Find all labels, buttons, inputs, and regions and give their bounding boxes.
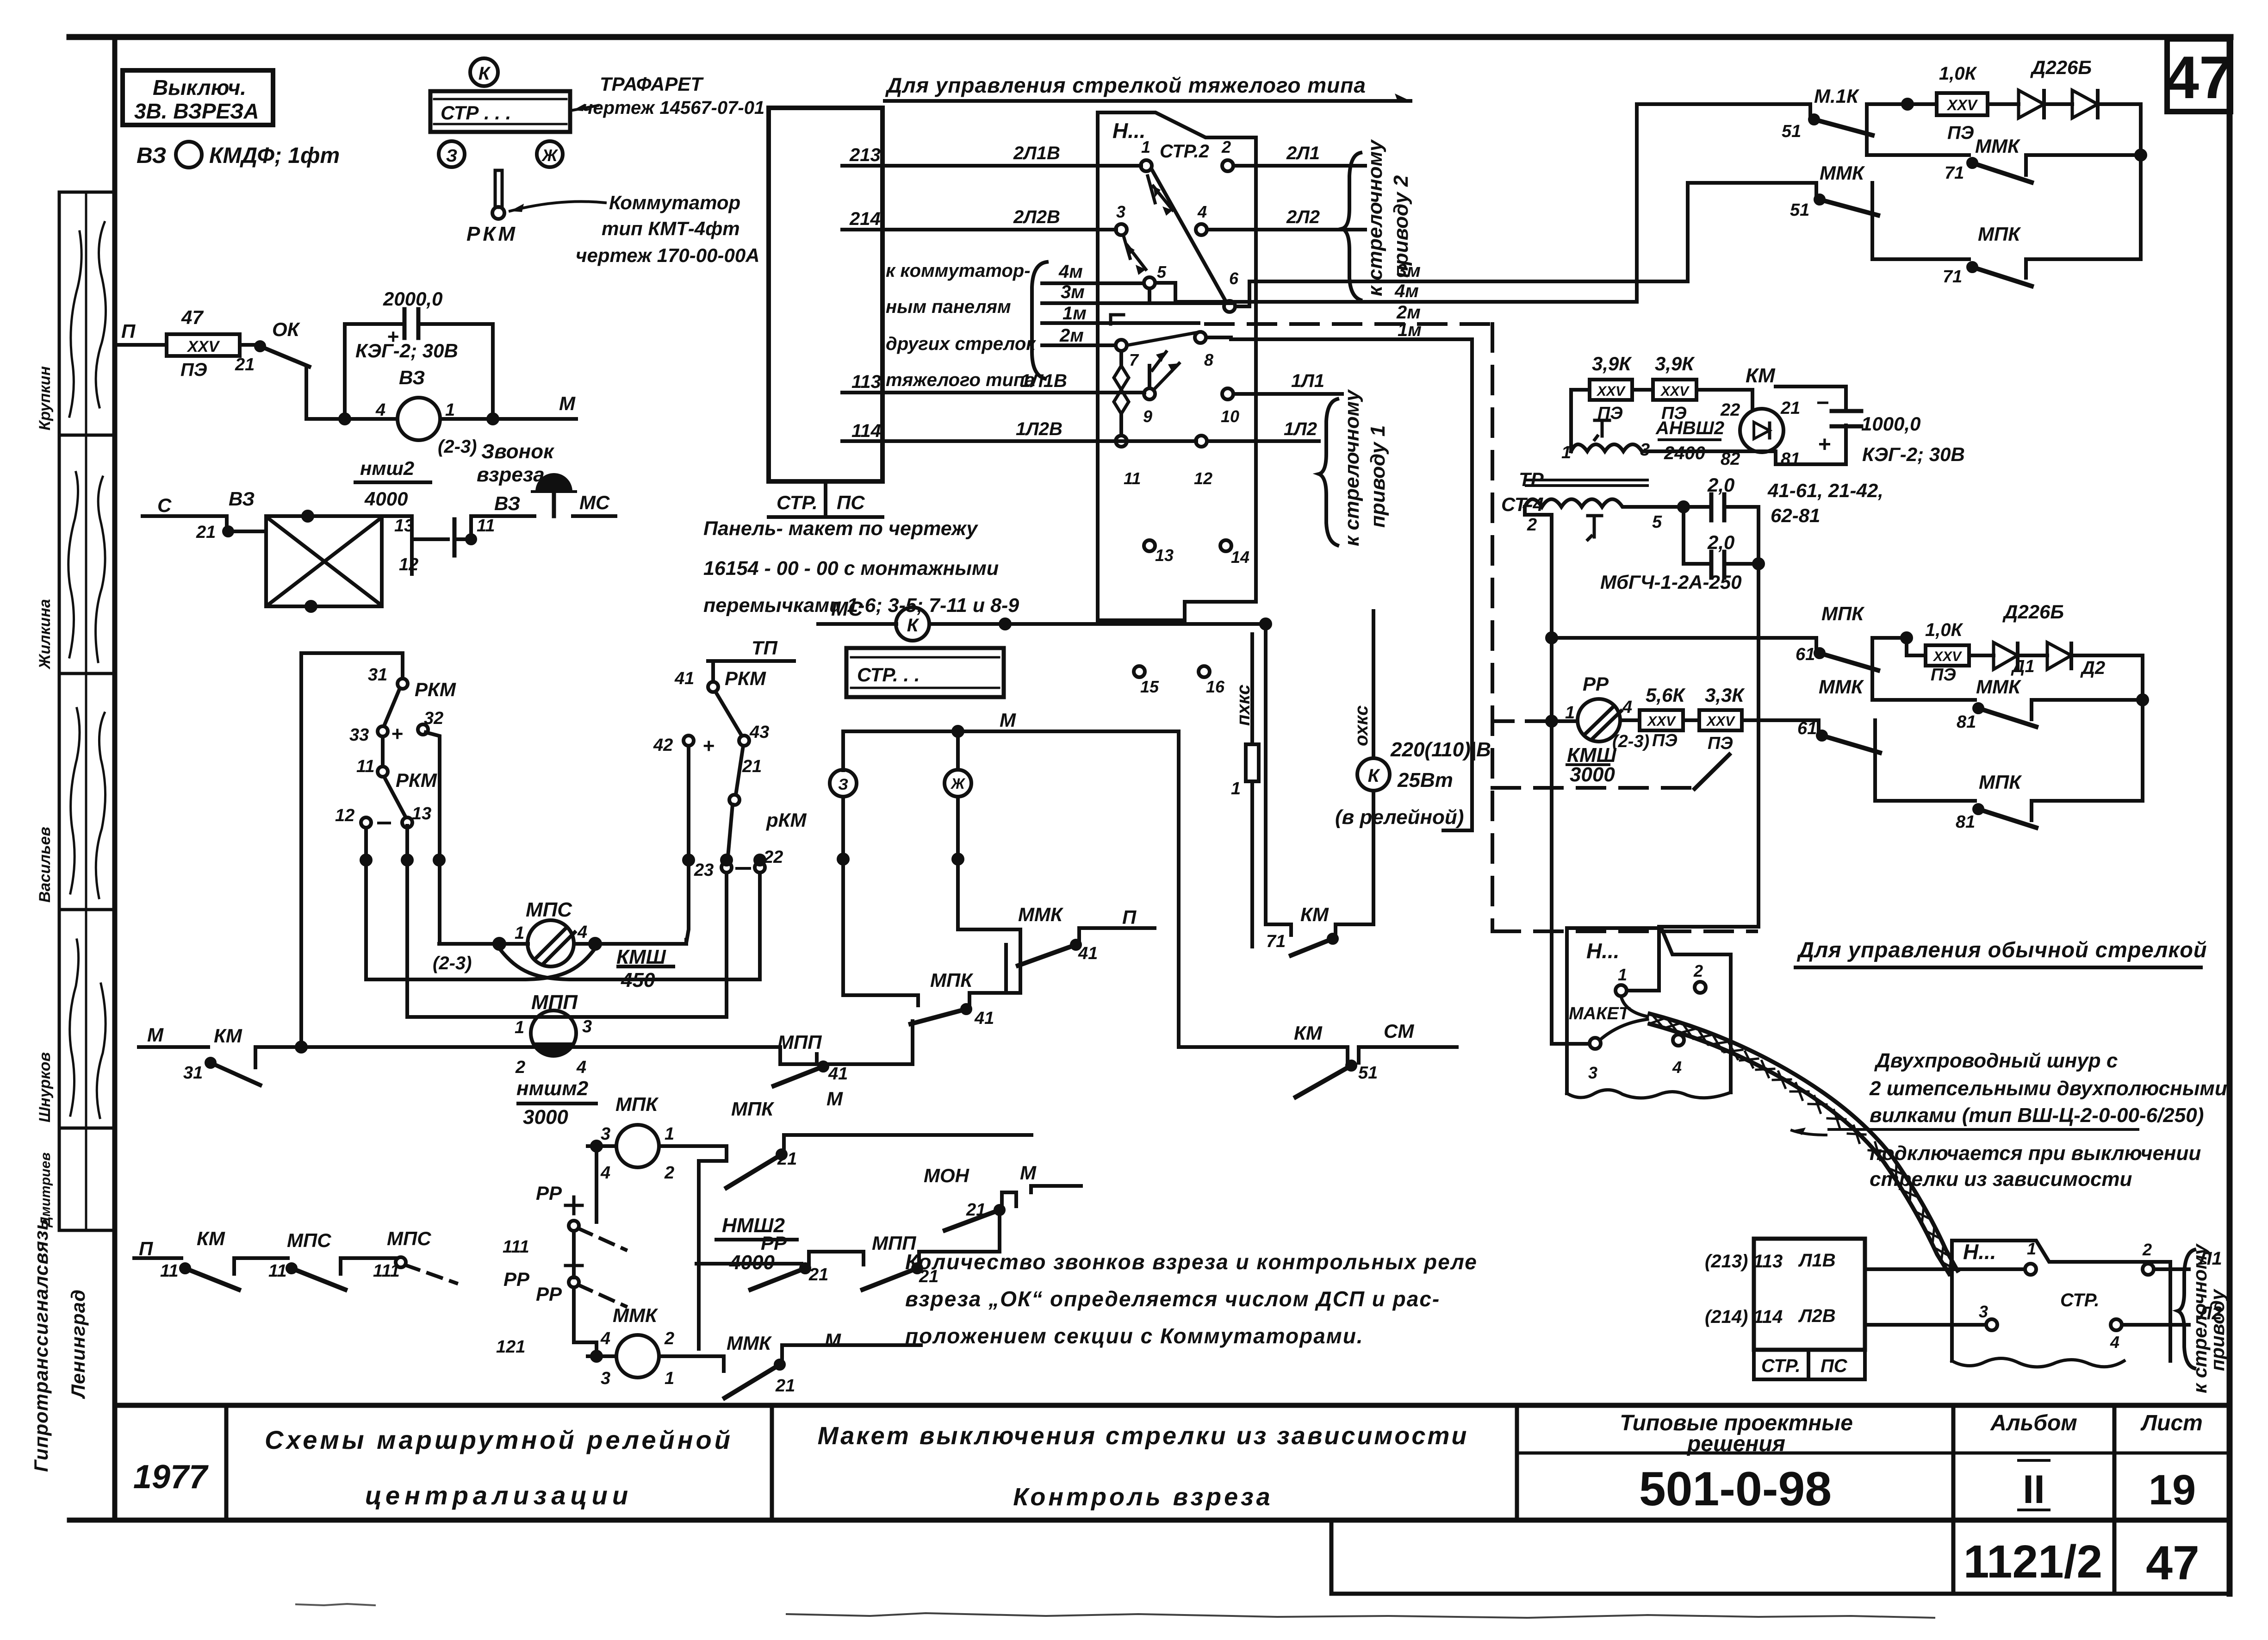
svg-text:нмшм2: нмшм2 [516,1077,589,1100]
resistor 5,6К XXV ПЭ [1640,710,1683,730]
svg-text:приводу: приводу [2206,1288,2228,1371]
pin 7 [1116,340,1127,351]
svg-text:4м: 4м [1058,262,1083,282]
wire 113 1Л1В [842,391,1144,394]
pin 10 [1222,388,1233,399]
pin 1 maket [1616,985,1627,996]
contact 9-8 arrows [1148,366,1151,388]
wire 2Л2 [1207,228,1365,231]
svg-text:к стрелочному: к стрелочному [1341,389,1363,546]
trafaret plate СТР second [846,648,1004,697]
contact ММК 61 [1818,731,1826,740]
svg-text:4: 4 [375,400,385,420]
svg-text:61: 61 [1796,645,1815,664]
svg-text:11: 11 [477,516,495,536]
svg-text:81: 81 [1957,712,1976,732]
svg-text:3: 3 [601,1369,610,1388]
svg-text:2 штепсельными двухполюсными: 2 штепсельными двухполюсными [1869,1077,2227,1100]
wire М to КМ-СМ [1179,731,1348,1047]
svg-text:Н...: Н... [1963,1240,1996,1264]
svg-text:П: П [139,1238,153,1260]
diode Д226Б #2 [2072,90,2098,118]
svg-text:2: 2 [1527,515,1537,535]
svg-text:ММК: ММК [613,1304,659,1326]
svg-text:ПЭ: ПЭ [1947,123,1974,143]
brace ( [1032,262,1047,379]
svg-text:(в релейной): (в релейной) [1335,806,1464,829]
svg-text:1: 1 [1561,443,1571,462]
wire МС [818,622,896,626]
2М dashed bus [1127,332,1200,345]
svg-text:ТРАФАРЕТ: ТРАФАРЕТ [600,73,704,95]
capacitor 2000,0 КЭГ-2 30В loop [345,324,402,419]
svg-text:СТР.: СТР. [2060,1290,2100,1310]
cap junction [1679,502,1688,511]
scan artifact squiggle [787,1613,1934,1618]
contact ОК 21 [256,342,264,350]
contact ММК 41 [1072,941,1080,949]
svg-text:11: 11 [268,1261,286,1281]
lamp К ОХКС 220(110)В 25Вт [1357,758,1390,791]
right tree ТП [653,637,807,880]
svg-text:П: П [1122,906,1137,928]
svg-text:Звонок: Звонок [481,440,555,463]
svg-text:МС: МС [831,598,864,620]
svg-text:МПК: МПК [1978,223,2021,245]
svg-text:13: 13 [412,804,431,823]
capacitor 2000,0 plates [403,309,407,338]
svg-text:РР: РР [503,1268,530,1290]
wire 4М stub [1042,281,1144,285]
title block divider 3 [1515,1405,1519,1520]
sheet frame right [2227,37,2233,1594]
svg-text:Ленинград: Ленинград [67,1289,89,1399]
svg-text:ПЭ: ПЭ [180,360,207,380]
ММК fixed to МПК pivot [969,965,1020,1007]
svg-text:121: 121 [496,1337,525,1357]
bottom strip left edge [1330,1520,1334,1594]
svg-text:Для управления обычной стрелко: Для управления обычной стрелкой [1796,937,2207,962]
contact КМ 11 [181,1264,189,1272]
resistor 47 XXV ПЭ [167,334,240,356]
wire Л1В [1865,1267,2025,1271]
brace к стрелочному приводу 1 [1319,399,1337,545]
svg-text:71: 71 [1266,932,1286,951]
svg-text:СТР.2: СТР.2 [1160,141,1209,162]
КМ 71 contact bottom [1266,624,1291,924]
pin5 drop [1148,288,1151,303]
svg-text:111: 111 [503,1237,529,1257]
svg-text:9: 9 [1143,407,1152,426]
svg-text:МПП: МПП [777,1031,822,1053]
svg-text:РР: РР [536,1182,562,1204]
pin 1 стр [2025,1264,2036,1275]
svg-text:3: 3 [1116,202,1125,221]
dashed mid line [1492,786,1694,790]
pin 3 [1116,224,1127,235]
pin 2 [1222,160,1233,171]
svg-text:2Л2: 2Л2 [1286,207,1320,227]
fraction line НМШ2/4000 [355,480,430,484]
panel table row [769,480,882,483]
svg-text:1,0К: 1,0К [1939,63,1977,84]
svg-text:ОК: ОК [272,318,301,340]
svg-text:МПС: МПС [387,1228,431,1249]
wire down to relay loop [306,366,345,419]
svg-text:3000: 3000 [1570,763,1615,786]
svg-text:СТР. . .: СТР. . . [857,664,920,686]
contact КМ 31 [206,1059,215,1067]
big diagonal 1-6 [1152,170,1226,302]
svg-text:Д226Б: Д226Б [2030,56,2092,78]
arrows near pin1 [1148,176,1155,203]
wire МПС 2-3 crossover [499,948,760,979]
svg-text:2: 2 [515,1058,525,1077]
svg-text:КЭГ-2; 30В: КЭГ-2; 30В [1862,443,1965,465]
wire 2Л1 [1233,164,1365,168]
label box Выключ. Зв. Взреза [123,70,273,125]
wire М [139,1045,208,1049]
wire 1М bus [1206,337,1472,339]
svg-text:114: 114 [851,421,881,441]
svg-text:41: 41 [828,1064,848,1084]
svg-text:СТР.: СТР. [1761,1356,1801,1376]
svg-text:2м: 2м [1059,325,1084,346]
svg-text:213: 213 [849,145,881,165]
caps 2,0 [1600,474,1742,593]
svg-text:10: 10 [1221,407,1239,426]
contact ММК 51 [1815,195,1824,204]
svg-text:41: 41 [974,1009,994,1028]
svg-text:З: З [838,776,848,793]
svg-text:ПЭ: ПЭ [1931,665,1956,685]
ММК 81 contact [1872,657,1975,700]
winding I mark [1595,420,1609,440]
svg-text:13: 13 [1155,546,1174,565]
svg-text:МАКЕТ: МАКЕТ [1569,1004,1631,1023]
wire to ММК 51 [1688,181,1816,185]
svg-text:СТР . . .: СТР . . . [441,102,511,124]
wire П staircase [1079,928,1155,942]
staircase МПП-МПК-ММК-П [777,904,1137,1084]
resistor 1,0К XXV ПЭ lower [1926,645,1969,666]
table box 113/114 СТР ПС [1754,1239,1865,1350]
svg-text:Васильев: Васильев [36,827,54,903]
lamp К МС commutator [896,607,929,641]
svg-text:ММК: ММК [1820,162,1865,184]
lamp Ж [944,770,971,797]
year 1977 [133,1411,2203,1590]
svg-text:ВЗ: ВЗ [494,493,520,514]
transformer core [1526,479,1647,481]
relay ВЗ КМДФ circle [176,142,202,168]
pin 16 [1199,666,1210,677]
23 vertical down [725,873,728,1017]
svg-text:62-81: 62-81 [1771,505,1820,526]
svg-text:501-0-98: 501-0-98 [1639,1462,1832,1516]
wire 4М riser [1635,104,1639,302]
svg-text:С: С [157,494,172,516]
svg-text:КМДФ; 1фт: КМДФ; 1фт [209,143,340,168]
svg-text:21: 21 [196,523,216,542]
svg-text:М: М [147,1024,164,1046]
svg-text:12: 12 [399,555,418,574]
svg-text:2Л1В: 2Л1В [1013,143,1060,163]
contact рКМ 23-22 [721,862,732,873]
svg-text:Для управления стрелкой тяж: Для управления стрелкой тяжелого типа [885,73,1366,97]
svg-text:4: 4 [577,923,587,942]
wire М.1К [1637,102,1810,106]
к коммутаторным панелям text [886,261,1036,390]
wire Л2В [1865,1323,1986,1327]
svg-text:11: 11 [1124,469,1141,488]
diode Д1 [1994,642,2018,669]
svg-text:2Л1: 2Л1 [1286,143,1320,163]
svg-text:Д2: Д2 [2080,658,2105,678]
svg-text:подключается при выключении: подключается при выключении [1870,1142,2201,1165]
svg-text:М: М [1020,1162,1037,1184]
МС lamp К circuit [831,598,864,620]
22 vertical down [758,873,762,979]
svg-text:других стрелок: других стрелок [886,334,1036,354]
svg-text:1м: 1м [1063,303,1087,324]
svg-text:2Л2В: 2Л2В [1013,207,1060,227]
svg-text:МС: МС [579,492,610,513]
svg-text:МПК: МПК [930,969,974,991]
svg-text:31: 31 [183,1063,203,1083]
arrow to чертеж [573,106,598,110]
svg-text:взреза: взреза [477,463,545,486]
contact МПК 61 [1815,649,1824,657]
svg-text:ВЗ: ВЗ [399,367,425,388]
svg-text:14: 14 [1231,548,1249,567]
svg-text:11: 11 [356,757,374,776]
wire ТП [708,659,794,663]
connector Н... СТР. outline [1952,1241,2170,1361]
transformer ТР СТ-4 primary winding 1-3 [1571,444,1647,451]
contact МПК 81 [1974,805,1982,813]
svg-text:РР: РР [761,1232,787,1254]
wire left rail РКМ tree [301,653,403,1040]
svg-text:Схемы маршрутной релейной: Схемы маршрутной релейной [265,1425,733,1454]
svg-text:43: 43 [749,723,769,742]
svg-text:19: 19 [2149,1466,2196,1514]
svg-text:4: 4 [1197,202,1207,221]
pin 4 стр [2111,1319,2122,1330]
svg-text:Макет выключения стрелки из за: Макет выключения стрелки из зависимости [818,1422,1469,1450]
wire 213 2Л1В [849,143,1067,441]
svg-text:12: 12 [1194,469,1212,488]
svg-text:Ж: Ж [541,146,558,165]
svg-text:КМ: КМ [1294,1022,1323,1044]
svg-text:71: 71 [1945,163,1964,183]
svg-text:42: 42 [653,736,673,755]
svg-text:4000: 4000 [364,488,408,510]
contact МОН 21 [995,1206,1004,1214]
svg-text:4м: 4м [1394,281,1419,301]
diode Д2 [2047,642,2071,669]
svg-text:М: М [559,393,576,414]
svg-text:РР: РР [536,1283,562,1305]
svg-text:33: 33 [349,725,369,745]
НМШ2/4000 fraction [716,1238,797,1241]
contact М.1К 51 [1808,104,1812,118]
svg-text:РКМ: РКМ [415,679,456,700]
dashed into РР [1492,719,1551,723]
svg-text:ПЭ: ПЭ [1708,734,1733,753]
svg-text:220(110)|В: 220(110)|В [1390,738,1491,761]
svg-text:3В. ВЗРЕЗА: 3В. ВЗРЕЗА [134,99,259,123]
wire ПХКС [1250,634,1254,744]
svg-text:61: 61 [1797,719,1817,738]
svg-text:21: 21 [775,1376,795,1396]
pin 12 [1196,436,1207,447]
wire СМ [1359,1045,1457,1049]
wire ОХКС [1372,611,1375,758]
svg-text:М.1К: М.1К [1814,85,1860,107]
svg-text:5: 5 [1652,512,1662,532]
svg-text:(214) 114: (214) 114 [1705,1307,1783,1327]
contact КМ 71 [1329,935,1337,943]
svg-text:XXV: XXV [1932,649,1963,664]
svg-text:3: 3 [1979,1302,1988,1321]
contact РР 121 [569,1277,579,1287]
resistor 3,9К XXV ПЭ #2 [1653,380,1696,400]
svg-text:МПК: МПК [1979,771,2022,793]
svg-text:4: 4 [600,1329,610,1348]
capacitor 1000,0 КЭГ-2 30В [1832,409,1861,413]
svg-text:1000,0: 1000,0 [1861,413,1920,435]
contact КМ 51 [1347,1061,1355,1070]
svg-text:решения: решения [1686,1432,1785,1456]
svg-text:ным панелям: ным панелям [886,297,1011,317]
svg-text:71: 71 [1943,267,1962,287]
svg-text:3: 3 [582,1017,592,1036]
svg-text:21: 21 [235,355,255,374]
svg-text:СТР.: СТР. [777,492,818,513]
wire 1Л2 [1207,439,1319,443]
svg-text:4: 4 [600,1163,610,1183]
svg-text:ММК: ММК [1018,904,1064,925]
contact МПК 21 [777,1150,786,1159]
svg-text:Лист: Лист [2140,1411,2203,1435]
svg-text:3м: 3м [1397,261,1421,281]
wire Л1 [2154,1267,2189,1271]
wire 2М stub [1042,343,1116,347]
sheet no box [2167,39,2231,112]
svg-text:23: 23 [694,861,714,880]
wire 4М bus [1155,283,1637,302]
wire from 32 down [426,732,440,944]
svg-text:3: 3 [1588,1063,1597,1082]
svg-text:47: 47 [181,306,204,328]
II underline/overline [2019,1459,2049,1462]
svg-text:51: 51 [1358,1063,1378,1083]
arrow from Коммутатор to key [510,201,605,211]
svg-text:2: 2 [1221,137,1231,156]
sheet frame top [69,34,2231,40]
svg-text:положением секции с Коммутат: положением секции с Коммутаторами. [905,1324,1364,1348]
svg-text:2: 2 [664,1163,674,1183]
svg-text:к коммутатор-: к коммутатор- [886,261,1031,281]
svg-text:1: 1 [665,1124,674,1144]
svg-text:1: 1 [515,1018,524,1037]
transformer secondary winding 2-5 [1525,499,1647,507]
contact МПК 71 [1968,263,1976,271]
arrows pin3 to 5 [1124,236,1130,258]
pin 3 стр [1986,1319,1997,1330]
РР contacts column [595,1146,598,1222]
relay РР КМШ/3000 coil [1578,699,1620,742]
svg-text:51: 51 [1790,200,1809,220]
pin 8 [1195,332,1206,343]
contact МПП 21 [913,1264,921,1272]
pin 5 [1144,277,1155,288]
svg-text:РКМ: РКМ [396,769,437,791]
svg-text:4: 4 [1672,1058,1682,1077]
pin 14 [1220,540,1231,551]
sheet frame left [112,37,118,1520]
pin 4 [1196,224,1207,235]
svg-text:Н...: Н... [1112,118,1146,143]
svg-text:чертеж 170-00-00А: чертеж 170-00-00А [576,244,760,266]
wire to М [493,417,576,421]
svg-text:МПК: МПК [1821,603,1865,624]
arrow from text to cord [1792,1130,1826,1135]
svg-text:+: + [1818,432,1831,457]
svg-text:РКМ: РКМ [725,667,766,689]
contact РР 21 [801,1264,809,1272]
33 down to 11 [381,736,385,767]
svg-text:РКМ: РКМ [466,223,518,245]
trafaret plate СТР [430,91,570,132]
svg-text:М: М [825,1329,841,1351]
МПК fixed to bus [911,1021,914,1064]
sheet frame bottom [69,1518,2230,1523]
pin 11 [1116,436,1127,447]
svg-text:Шнурков: Шнурков [36,1052,54,1122]
margin column line [58,192,61,1230]
svg-text:1: 1 [515,923,524,943]
svg-text:22: 22 [1720,400,1740,420]
wire into resistors from left [1569,390,1573,451]
svg-text:К: К [1368,766,1380,786]
wire 2М dashed riser [1491,324,1494,931]
svg-text:4: 4 [2110,1333,2119,1352]
two-wire cord hatched [1650,1014,1957,1271]
svg-text:51: 51 [1782,122,1801,141]
svg-text:З: З [446,146,457,166]
wire rail B [1757,507,1760,927]
right drop [2139,104,2143,259]
contact ММК 71 [1968,159,1976,167]
svg-text:3,9К: 3,9К [1592,353,1632,374]
svg-text:7: 7 [1129,350,1139,369]
svg-text:КМ: КМ [214,1025,242,1047]
svg-text:чертеж 14567-07-01: чертеж 14567-07-01 [582,98,764,118]
resistor 1,0К XXV ПЭ [1937,93,1988,115]
svg-text:(2-3): (2-3) [438,437,477,457]
lamp drops [843,797,918,995]
svg-text:XXV: XXV [1660,384,1690,399]
svg-text:РР: РР [1583,673,1609,695]
diode Д226Б #1 [2019,90,2044,118]
svg-text:8: 8 [1204,350,1213,369]
title block divider 5 [2113,1405,2117,1594]
svg-text:1Л2В: 1Л2В [1016,419,1063,439]
verticals down [364,829,368,979]
svg-text:МбГЧ-1-2А-250: МбГЧ-1-2А-250 [1600,571,1742,593]
